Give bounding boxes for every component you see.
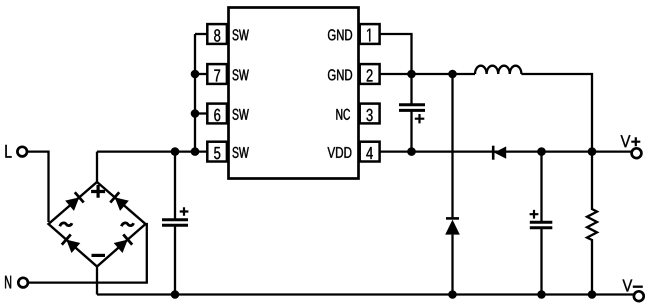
junction R1 bottom rail xyxy=(588,290,597,299)
bridge diode bottom-right xyxy=(114,234,133,253)
terminal V+ circle xyxy=(632,148,642,158)
wire N to bridge right vertex xyxy=(29,224,147,283)
diode D1 bottom lead xyxy=(451,235,453,295)
wire bridge + output riser xyxy=(96,152,98,182)
wire stub pin 8 xyxy=(195,33,207,35)
pin number 1 xyxy=(367,29,370,42)
pin number 4 xyxy=(366,147,373,159)
capacitor C2 plates xyxy=(399,105,425,111)
terminal V+ plus mark xyxy=(631,137,640,146)
label GND pin 1 xyxy=(328,29,352,40)
freewheel branch wire xyxy=(451,74,453,217)
capacitor C3 plates xyxy=(530,222,553,227)
pin 6 box xyxy=(207,104,227,124)
bridge diode top-right xyxy=(110,192,129,211)
SW bus vertical xyxy=(194,34,196,152)
resistor R1 xyxy=(587,152,597,295)
bridge diode top-left xyxy=(65,192,84,211)
pin 2 box xyxy=(360,64,380,84)
diode D1 freewheeling xyxy=(445,218,460,234)
pin number 8 xyxy=(214,29,220,41)
bridge AC tilde left xyxy=(60,223,72,226)
junction SW bus pin 7 xyxy=(191,70,200,79)
label GND pin 2 xyxy=(328,69,352,80)
junction L1 output / R1 top xyxy=(588,147,597,156)
label SW pin 7 xyxy=(233,69,249,80)
IC U1 body xyxy=(229,8,359,179)
diode D2 output rectifier xyxy=(493,146,506,160)
terminal V- minus mark xyxy=(633,286,643,288)
inductor L1 xyxy=(475,66,521,74)
terminal V- label xyxy=(623,280,633,292)
terminal L circle xyxy=(17,147,27,157)
pin number 7 xyxy=(214,70,220,82)
label NC pin 3 xyxy=(336,109,350,120)
terminal N label xyxy=(5,276,11,289)
label SW pin 5 xyxy=(233,147,249,158)
wire L to bridge left vertex xyxy=(28,152,49,222)
wire stub pin 6 xyxy=(195,112,207,114)
terminal N circle xyxy=(18,278,28,288)
junction C1 top xyxy=(171,147,180,156)
capacitor C3 top lead xyxy=(540,152,542,222)
bridge minus mark xyxy=(92,254,106,257)
wire inductor to output node xyxy=(521,74,592,152)
junction C2 bottom VDD row xyxy=(407,147,416,156)
pin 7 box xyxy=(207,64,227,84)
wire stub pin 7 xyxy=(195,73,207,75)
VDD row wire xyxy=(380,150,632,152)
junction C1 bottom rail xyxy=(171,290,180,299)
capacitor C2 top lead xyxy=(410,74,412,104)
junction C3 bottom rail xyxy=(537,290,546,299)
pin number 3 xyxy=(367,109,373,121)
capacitor C1 plates xyxy=(162,220,188,226)
pin 3 box xyxy=(360,104,380,124)
label SW pin 6 xyxy=(233,109,249,120)
pin 4 box xyxy=(360,142,380,162)
junction freewheel branch xyxy=(448,70,457,79)
pin 5 box xyxy=(207,142,227,162)
capacitor C3 bottom lead xyxy=(540,228,542,295)
pin 1 box xyxy=(360,24,380,44)
junction SW bus pin 6 xyxy=(191,109,200,118)
bridge diode bottom-left xyxy=(62,234,81,253)
pin number 6 xyxy=(214,109,220,121)
capacitor C2 plus mark xyxy=(415,114,425,123)
label SW pin 8 xyxy=(233,29,249,40)
capacitor C3 plus mark xyxy=(530,210,539,219)
junction SW bus pin 5 row xyxy=(191,147,200,156)
pin number 2 xyxy=(367,69,373,81)
wire bridge - riser to bottom rail xyxy=(96,267,98,295)
junction pin1/pin2/C2 xyxy=(407,70,416,79)
capacitor C1 plus mark xyxy=(180,207,189,215)
wire pin 2 row xyxy=(380,73,475,75)
wire input row to pin 5 xyxy=(97,150,207,152)
capacitor C1 bottom lead xyxy=(174,226,176,295)
bridge plus mark xyxy=(91,185,105,198)
capacitor C1 top lead xyxy=(174,152,176,219)
wire pin 1 to GND net xyxy=(380,34,412,74)
junction C3 top xyxy=(537,147,546,156)
terminal V- circle xyxy=(634,291,644,301)
pin number 5 xyxy=(214,147,220,159)
terminal L label xyxy=(5,145,11,158)
label VDD pin 4 xyxy=(328,147,352,158)
junction D1 bottom rail xyxy=(448,290,457,299)
bottom rail V- net xyxy=(97,293,634,295)
bridge AC tilde right xyxy=(121,223,133,226)
terminal V+ label xyxy=(621,135,631,147)
capacitor C2 bottom lead xyxy=(410,111,412,152)
pin 8 box xyxy=(207,24,227,44)
bridge rectifier BR1 diamond edges xyxy=(49,182,146,267)
